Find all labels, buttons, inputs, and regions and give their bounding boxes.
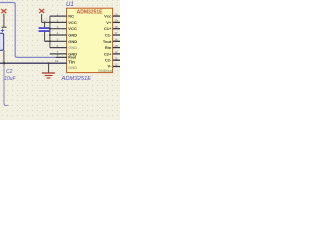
- svg-text:GNDiso: GNDiso: [98, 69, 113, 73]
- svg-text:15: 15: [114, 44, 118, 48]
- svg-text:NC: NC: [68, 14, 74, 19]
- svg-text:V-: V-: [108, 64, 112, 69]
- svg-text:GND: GND: [68, 39, 77, 44]
- svg-text:GND: GND: [68, 33, 77, 38]
- svg-text:C1-: C1-: [105, 33, 112, 38]
- svg-text:17: 17: [114, 31, 118, 35]
- svg-text:20: 20: [114, 12, 118, 16]
- svg-text:16: 16: [114, 38, 118, 42]
- svg-text:Rin: Rin: [105, 45, 112, 50]
- svg-text:C2: C2: [6, 69, 13, 75]
- svg-text:VCC: VCC: [68, 26, 77, 31]
- svg-text:18: 18: [114, 25, 118, 29]
- svg-text:VCC: VCC: [68, 20, 77, 25]
- svg-text:V+: V+: [106, 20, 112, 25]
- svg-text:10uF: 10uF: [4, 76, 16, 82]
- svg-text:C2-: C2-: [105, 58, 112, 63]
- svg-text:10: 10: [55, 59, 59, 63]
- svg-text:GND: GND: [68, 65, 77, 70]
- svg-text:C2+: C2+: [104, 51, 112, 56]
- svg-text:Tout: Tout: [103, 39, 112, 44]
- svg-text:ADM3251E: ADM3251E: [61, 76, 92, 82]
- svg-text:GND: GND: [68, 45, 77, 50]
- svg-text:12: 12: [114, 63, 118, 67]
- svg-text:C3: C3: [43, 18, 47, 22]
- svg-text:14: 14: [114, 50, 118, 54]
- svg-text:Vcc: Vcc: [104, 14, 112, 19]
- svg-text:13: 13: [114, 56, 118, 60]
- svg-text:ADM3251E: ADM3251E: [77, 10, 104, 16]
- svg-text:C1+: C1+: [104, 26, 112, 31]
- svg-text:U1: U1: [66, 2, 74, 8]
- svg-text:19: 19: [114, 19, 118, 23]
